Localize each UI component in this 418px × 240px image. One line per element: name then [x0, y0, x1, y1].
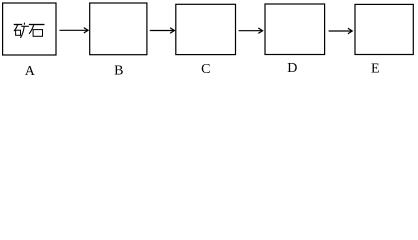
svg-text:D: D [287, 61, 297, 76]
arrow C to D [239, 28, 263, 33]
box D [265, 4, 325, 55]
text 矿石 (drawn strokes) [14, 23, 44, 38]
box E [355, 4, 413, 54]
svg-text:E: E [371, 61, 380, 76]
arrow B to C [150, 28, 175, 33]
arrow D to E [329, 28, 353, 33]
svg-text:B: B [114, 63, 123, 78]
box C [176, 4, 236, 54]
box A [3, 3, 56, 55]
arrow A to B [60, 28, 89, 33]
svg-text:A: A [25, 64, 36, 79]
box B [90, 3, 147, 55]
svg-text:C: C [201, 62, 210, 77]
